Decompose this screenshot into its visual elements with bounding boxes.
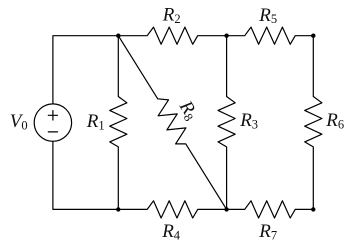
resistor R6 <box>305 36 322 210</box>
V0 minus sign <box>48 131 57 133</box>
svg-text:R6: R6 <box>325 110 344 131</box>
resistor R5 <box>227 27 314 44</box>
wire top-left: source to node A <box>53 36 118 104</box>
node F (bottom right) <box>311 207 315 211</box>
node C (top right) <box>311 34 315 38</box>
wire bottom-left: source to node D <box>53 141 118 209</box>
svg-text:R2: R2 <box>162 5 181 26</box>
resistor R2 <box>118 27 226 44</box>
resistor R4 <box>118 201 226 218</box>
voltage source V0 <box>34 104 71 141</box>
resistor R3 <box>218 36 235 210</box>
resistor R8 (diagonal) <box>118 36 226 210</box>
resistor R7 <box>227 201 314 218</box>
V0 plus sign <box>48 111 57 120</box>
svg-text:R1: R1 <box>86 111 105 132</box>
node B (top junction 2) <box>224 34 228 38</box>
svg-text:V0: V0 <box>10 111 28 132</box>
svg-text:R5: R5 <box>258 5 277 26</box>
svg-text:R8: R8 <box>174 96 202 123</box>
svg-text:R4: R4 <box>161 221 181 242</box>
resistor R1 <box>110 36 127 210</box>
node A (top junction 1) <box>116 34 120 38</box>
node D (bottom junction 1) <box>116 207 120 211</box>
svg-text:R3: R3 <box>239 110 258 131</box>
node E (bottom junction 2) <box>224 207 228 211</box>
svg-text:R7: R7 <box>258 221 277 242</box>
